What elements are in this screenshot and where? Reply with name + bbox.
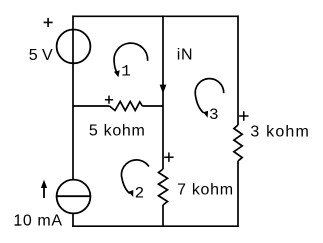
mesh current arrow I2 <box>121 160 148 197</box>
wire left rail upper (through voltage source) <box>72 15 74 106</box>
resistor R3 (3 kohm) <box>234 125 242 161</box>
svg-text:1: 1 <box>121 62 131 80</box>
label + (R1) <box>105 96 113 104</box>
label + (R2) <box>164 153 173 162</box>
voltage source V1 (5 V) <box>57 30 91 64</box>
resistor R1 (5 kohm) <box>109 102 142 111</box>
svg-text:5 V: 5 V <box>29 47 53 64</box>
wire middle vertical upper (iN branch) <box>162 15 164 106</box>
wire middle horizontal right <box>142 105 163 107</box>
svg-text:3 kohm: 3 kohm <box>250 123 310 140</box>
label + (V1 positive terminal) <box>44 18 53 27</box>
wire middle vertical middle <box>162 106 164 169</box>
wire bottom rail <box>72 225 238 227</box>
svg-text:2: 2 <box>135 184 145 202</box>
mesh current arrow I1 <box>114 43 148 77</box>
wire below current source <box>72 213 74 227</box>
mesh current arrow I3 <box>195 79 224 118</box>
svg-text:5 kohm: 5 kohm <box>89 123 146 140</box>
label + (R3) <box>239 111 248 120</box>
svg-text:7 kohm: 7 kohm <box>177 182 234 199</box>
svg-text:3: 3 <box>209 106 219 124</box>
wire left rail middle <box>72 106 74 179</box>
svg-text:iN: iN <box>177 47 194 64</box>
wire top rail <box>73 15 238 17</box>
wire right rail lower <box>237 161 239 227</box>
current arrow iN (down) <box>160 85 167 94</box>
current source I1 (10 mA) <box>57 180 91 214</box>
serif bar under digit 1 of 10 mA <box>15 224 20 225</box>
wire middle vertical lower <box>162 205 164 227</box>
svg-text:10 mA: 10 mA <box>13 213 62 230</box>
wire right rail upper <box>237 15 239 125</box>
current source direction arrow (up) <box>43 187 45 198</box>
resistor R2 (7 kohm) <box>159 169 168 205</box>
wire middle horizontal left <box>73 105 109 107</box>
current source bar <box>56 195 91 197</box>
